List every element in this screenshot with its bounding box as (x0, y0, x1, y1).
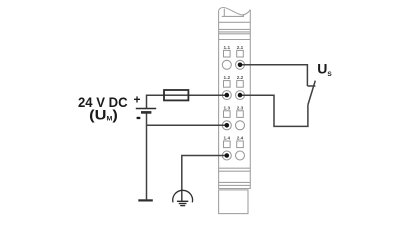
svg-text:2.4: 2.4 (237, 136, 244, 141)
svg-text:1.2: 1.2 (224, 75, 231, 80)
module section line (219, 21, 251, 23)
LED square 1.1 (224, 50, 231, 57)
connection dot 1.4 (225, 153, 230, 158)
svg-text:1.3: 1.3 (224, 105, 231, 110)
connection dot 1.2 (225, 93, 230, 98)
terminal circles (222, 60, 244, 160)
switch S1 fixed contact tick (307, 85, 315, 87)
terminal circle 2.4 (236, 151, 245, 160)
module section line (219, 28, 251, 30)
battery B1 negative plate (141, 111, 151, 114)
terminal circle 1.3 (222, 121, 231, 130)
LED square 2.4 (237, 141, 244, 148)
connection dot 1.3 (225, 123, 230, 128)
connection dot 2.1 (238, 63, 243, 68)
terminal circle 1.4 (222, 151, 231, 160)
svg-text:(UM): (UM) (89, 107, 118, 123)
connection dot 2.2 (238, 93, 243, 98)
module foot box (219, 190, 248, 214)
wire battery plus to fuse to terminal 1.2 (147, 95, 227, 108)
wire terminal 2.2 to switch bottom (240, 95, 308, 126)
svg-text:1.1: 1.1 (224, 45, 231, 50)
module wavy top edge (219, 7, 251, 14)
svg-text:2.2: 2.2 (237, 75, 244, 80)
svg-text:US: US (317, 61, 332, 78)
terminal circle 2.2 (236, 91, 245, 100)
module section line (219, 170, 251, 172)
earth ground symbol (173, 190, 193, 205)
battery minus sign (137, 117, 141, 119)
svg-text:+: + (133, 93, 140, 107)
terminal circle 2.3 (236, 121, 245, 130)
module section line (219, 184, 251, 186)
fuse F1 (164, 90, 190, 100)
svg-text:1.4: 1.4 (224, 136, 231, 141)
module section line (219, 167, 251, 169)
LED square 1.2 (224, 81, 231, 88)
module section line (219, 181, 251, 183)
wires (dark) (147, 65, 316, 201)
terminal module body outline (219, 7, 251, 213)
LED indicator squares (224, 50, 244, 147)
module right edge (249, 10, 251, 189)
LED square 2.2 (237, 81, 244, 88)
wire battery minus down to chassis ground (146, 112, 148, 199)
chassis ground bar (138, 199, 153, 201)
svg-text:2.1: 2.1 (237, 45, 244, 50)
module top inner detail (222, 9, 244, 17)
module section line (219, 39, 251, 41)
wire terminal 2.1 to switch top (240, 65, 307, 86)
module section line (219, 188, 251, 190)
terminal circle 1.2 (222, 91, 231, 100)
svg-text:2.3: 2.3 (237, 105, 244, 110)
terminal circle 1.1 (222, 60, 231, 69)
LED square 1.3 (224, 111, 231, 118)
switch S1 blade (308, 81, 315, 105)
module section line (219, 31, 251, 33)
LED square 2.3 (237, 111, 244, 118)
wire battery minus to terminal 1.3 (147, 124, 227, 126)
LED square 2.1 (237, 50, 244, 57)
module section line (219, 33, 251, 35)
LED square 1.4 (224, 141, 231, 148)
battery B1 positive plate (136, 108, 156, 110)
module left edge (218, 11, 220, 190)
wire terminal 1.4 to earth ground (182, 156, 227, 202)
terminal circle 2.1 (236, 60, 245, 69)
terminal point labels (224, 45, 244, 141)
